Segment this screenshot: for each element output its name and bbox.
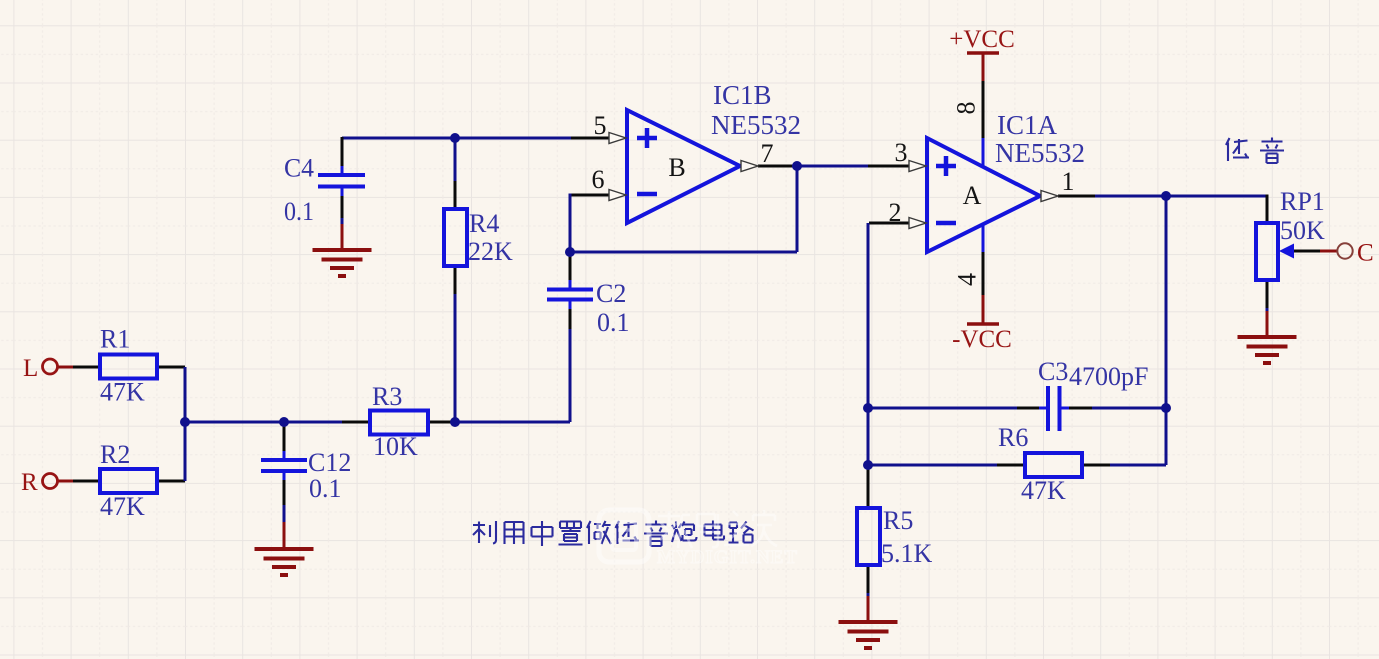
svg-text:+VCC: +VCC — [949, 26, 1015, 53]
node junction R4 top — [450, 133, 460, 143]
wire main horizontal — [185, 421, 342, 424]
power +VCC bar — [967, 51, 999, 55]
node junction L-R join — [180, 417, 190, 427]
wire R5 bottom lead — [867, 565, 870, 596]
label R3 value 10K — [373, 432, 418, 461]
wire R3 left lead — [342, 421, 370, 424]
wire pin6 lead — [570, 194, 610, 197]
watermark logo square — [599, 510, 649, 562]
wire net top C4-R4-pin5 — [342, 137, 571, 140]
label net name 低音 (bass) — [1226, 138, 1284, 164]
label op-amp A — [963, 181, 982, 210]
pin arrow pin5 — [609, 133, 626, 144]
wire RP1 wiper lead — [1293, 250, 1320, 253]
wire right column vertical — [1165, 196, 1168, 465]
wire C3 left lead — [1017, 407, 1039, 410]
pin number 1 — [1062, 167, 1075, 196]
node junction C2 feedback — [565, 247, 575, 257]
node junction pin1 output — [1161, 191, 1171, 201]
capacitor C4 — [318, 166, 365, 196]
wire R4 top — [454, 138, 457, 209]
pin number 7 — [761, 139, 774, 168]
resistor R4 — [444, 209, 467, 266]
svg-text:-VCC: -VCC — [952, 326, 1012, 353]
pin arrow pin3 — [909, 161, 926, 172]
svg-text:C: C — [1357, 240, 1374, 267]
node junction R3-R4 — [450, 417, 460, 427]
wire pin3 lead — [868, 165, 910, 168]
pin arrow pin7 output — [741, 161, 758, 172]
resistor R6 — [1025, 453, 1082, 477]
label op-amp B — [668, 153, 685, 182]
pin number 5 — [594, 111, 607, 140]
potentiometer RP1 wiper arrow — [1279, 244, 1294, 259]
wire C12 ground stem — [283, 522, 286, 549]
wire R1 left lead — [73, 366, 100, 369]
label R4 refdes — [469, 209, 499, 238]
resistor R1 — [100, 355, 157, 379]
label IC1B refdes — [713, 80, 772, 110]
label R2 refdes — [100, 440, 130, 469]
wire C3 left net — [868, 407, 1017, 410]
wire main horizontal to C2 column — [455, 421, 570, 424]
wire C3 right net — [1092, 407, 1166, 410]
port R circle — [43, 474, 58, 489]
wire C4 top lead — [341, 137, 344, 166]
wire input join vertical — [184, 367, 187, 481]
power -VCC bar — [967, 322, 999, 326]
label R6 value 47K — [1021, 476, 1066, 505]
wire pin8 VCC stem — [982, 53, 985, 167]
label C12 value 0.1 — [309, 474, 342, 503]
label IC1B part NE5532 — [711, 110, 801, 140]
potentiometer RP1 body — [1256, 223, 1278, 280]
svg-text:50K: 50K — [1280, 216, 1325, 245]
svg-text:C4: C4 — [284, 154, 314, 183]
label C2 refdes — [596, 279, 626, 308]
title text 利用中置做低音炮电路 — [473, 521, 754, 547]
label R5 refdes — [883, 506, 913, 535]
port C circle — [1337, 243, 1352, 258]
pin arrow pin1 output — [1041, 191, 1058, 202]
svg-text:22K: 22K — [468, 237, 513, 266]
pin number 6 — [592, 165, 605, 194]
op-amp IC1A plus sign — [936, 156, 956, 176]
svg-text:0.1: 0.1 — [597, 308, 630, 337]
svg-text:47K: 47K — [1021, 476, 1066, 505]
wire pin4 VCC stem — [982, 224, 985, 324]
label -VCC — [952, 326, 1012, 353]
svg-text:47K: 47K — [100, 378, 145, 407]
svg-text:47K: 47K — [100, 492, 145, 521]
wire R2 left lead — [73, 480, 100, 483]
op-amp IC1B minus sign — [637, 192, 657, 197]
resistor R5 — [857, 508, 880, 565]
svg-text:0.1: 0.1 — [309, 474, 342, 503]
svg-text:MYDIGIT.NET: MYDIGIT.NET — [657, 547, 798, 568]
svg-text:5: 5 — [594, 111, 607, 140]
wire C3 right lead — [1069, 407, 1092, 410]
wire R6 left net — [868, 464, 997, 467]
label R2 value 47K — [100, 492, 145, 521]
wire R3 right lead — [428, 421, 455, 424]
svg-text:3: 3 — [895, 138, 908, 167]
wire C12 top lead — [283, 422, 286, 451]
wire R6 right lead — [1082, 464, 1110, 467]
op-amp U1 IC1B triangle — [627, 110, 740, 223]
label C2 value 0.1 — [597, 308, 630, 337]
wire C12 bottom lead — [283, 480, 286, 522]
label C3 refdes — [1038, 357, 1068, 386]
capacitor C12 — [261, 451, 307, 480]
wire R4 bottom — [454, 266, 457, 422]
wire pin7 column vertical — [796, 166, 799, 252]
node junction C3 right — [1161, 403, 1171, 413]
svg-text:R5: R5 — [883, 506, 913, 535]
wire C2 bottom lead — [569, 309, 572, 329]
svg-text:2: 2 — [889, 198, 902, 227]
wire pin2 column vertical — [867, 223, 870, 465]
pin number 3 — [895, 138, 908, 167]
wire R1 right lead — [157, 366, 185, 369]
op-amp IC1A minus sign — [936, 221, 956, 226]
node junction C12 tap — [279, 417, 289, 427]
svg-text:IC1B: IC1B — [713, 80, 772, 110]
wire C4 ground stem — [341, 224, 344, 250]
wire pin6 to C2 node — [569, 194, 572, 253]
pin arrow pin2 — [909, 218, 926, 229]
svg-text:R1: R1 — [100, 325, 130, 354]
wire feedback C2 node to pin7 column — [570, 251, 797, 254]
wire R5 top lead — [867, 465, 870, 508]
label R4 value 22K — [468, 237, 513, 266]
watermark text 数码之家 — [658, 510, 777, 548]
label RP1 value 50K — [1280, 216, 1325, 245]
node junction R6-R5 — [863, 460, 873, 470]
wire IC1A output lead — [1058, 195, 1095, 198]
wire RP1 top lead — [1266, 195, 1269, 224]
op-amp IC1B plus sign — [637, 128, 657, 148]
svg-text:6: 6 — [592, 165, 605, 194]
label IC1A part NE5532 — [995, 138, 1085, 168]
wire RP1 ground stem — [1266, 308, 1269, 337]
svg-text:8: 8 — [952, 102, 981, 115]
resistor R2 — [100, 469, 157, 493]
svg-text:R3: R3 — [372, 382, 402, 411]
wire pin2 lead — [869, 222, 910, 225]
port label C — [1357, 240, 1374, 267]
ground under C4 — [313, 250, 372, 276]
label +VCC — [949, 26, 1015, 53]
svg-text:L: L — [23, 355, 38, 382]
ground under C12 — [255, 549, 314, 575]
label C4 value 0.1 — [284, 197, 314, 226]
wire R6 right net — [1110, 464, 1166, 467]
capacitor C3 — [1039, 386, 1069, 431]
wire RP1 bottom lead — [1266, 280, 1269, 308]
capacitor C2 — [547, 280, 593, 309]
svg-text:R2: R2 — [100, 440, 130, 469]
svg-text:NE5532: NE5532 — [995, 138, 1085, 168]
wire C4 bottom lead — [341, 196, 344, 224]
node junction pin7 output — [792, 161, 802, 171]
wire C port stub — [1320, 250, 1337, 253]
wire pin5 lead — [571, 137, 610, 140]
svg-text:4700pF: 4700pF — [1069, 362, 1148, 391]
ground under R5 — [839, 622, 898, 648]
label IC1A refdes — [997, 110, 1058, 140]
svg-text:5.1K: 5.1K — [881, 539, 933, 568]
port label R — [21, 469, 38, 496]
svg-text:C3: C3 — [1038, 357, 1068, 386]
svg-text:7: 7 — [761, 139, 774, 168]
label C3 value 4700pF — [1069, 362, 1148, 391]
watermark text MYDIGIT.NET — [657, 547, 798, 568]
wire R port stub — [57, 480, 73, 483]
svg-text:C2: C2 — [596, 279, 626, 308]
wire IC1B output lead — [758, 165, 792, 168]
svg-text:4: 4 — [953, 273, 982, 286]
ground under RP1 — [1238, 337, 1297, 363]
svg-text:0.1: 0.1 — [284, 197, 314, 226]
svg-text:R4: R4 — [469, 209, 499, 238]
svg-text:R6: R6 — [998, 423, 1028, 452]
wire pin1 net to RP1 — [1095, 195, 1267, 198]
pin arrow pin6 — [609, 190, 626, 201]
wire R2 right lead — [157, 480, 185, 483]
wire R6 left lead — [997, 464, 1025, 467]
label RP1 refdes — [1280, 187, 1325, 216]
svg-text:NE5532: NE5532 — [711, 110, 801, 140]
label C12 refdes — [308, 448, 351, 477]
label C4 refdes — [284, 154, 314, 183]
wire L port stub — [57, 366, 73, 369]
svg-text:A: A — [963, 181, 982, 210]
label R6 refdes — [998, 423, 1028, 452]
node junction C3 left — [863, 403, 873, 413]
svg-text:RP1: RP1 — [1280, 187, 1325, 216]
wire C2 top lead — [569, 252, 572, 280]
wire R5 ground stem — [867, 596, 870, 622]
svg-text:1: 1 — [1062, 167, 1075, 196]
label R1 value 47K — [100, 378, 145, 407]
pin number 8 rotated — [952, 102, 981, 115]
svg-text:C12: C12 — [308, 448, 351, 477]
wire C2 bottom to main wire — [569, 329, 572, 422]
op-amp U2 IC1A triangle — [927, 138, 1040, 252]
svg-text:IC1A: IC1A — [997, 110, 1058, 140]
svg-text:10K: 10K — [373, 432, 418, 461]
resistor R3 — [370, 411, 428, 435]
pin number 2 — [889, 198, 902, 227]
svg-text:B: B — [668, 153, 685, 182]
label R1 refdes — [100, 325, 130, 354]
label R3 refdes — [372, 382, 402, 411]
pin number 4 rotated — [953, 273, 982, 286]
svg-text:R: R — [21, 469, 38, 496]
label R5 value 5.1K — [881, 539, 933, 568]
wire pin7 to pin3 net — [792, 165, 868, 168]
port label L — [23, 355, 38, 382]
port L circle — [43, 359, 58, 374]
